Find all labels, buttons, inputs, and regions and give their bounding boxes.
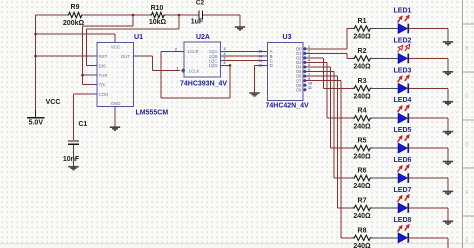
svg-text:240Ω: 240Ω	[353, 94, 371, 101]
U2A pin stubs	[179, 51, 226, 65]
svg-text:13: 13	[258, 59, 262, 63]
wire O1 to R2	[307, 53, 353, 58]
ground LED2	[443, 72, 453, 75]
resistor R7	[353, 205, 372, 210]
wire R8 to LED8	[372, 237, 398, 239]
U3 pin names A B C D	[270, 49, 273, 68]
svg-text:74HC42N_4V: 74HC42N_4V	[266, 103, 310, 110]
wire VCC to U1 VCC pin	[36, 34, 116, 38]
svg-text:LED1: LED1	[394, 8, 412, 15]
wire LED1 to ground	[409, 29, 448, 42]
wire O7 to R8	[307, 81, 353, 238]
wire 1QC to C	[226, 60, 263, 62]
svg-text:5: 5	[224, 57, 226, 61]
svg-text:OUT: OUT	[121, 54, 131, 59]
svg-text:11: 11	[308, 86, 312, 90]
U1 pin stubs	[91, 38, 139, 111]
svg-text:15: 15	[258, 50, 262, 54]
U1 pin names	[99, 45, 131, 106]
svg-text:1CLR: 1CLR	[188, 49, 199, 54]
svg-text:VCC: VCC	[111, 45, 120, 50]
U3 input pin numbers	[258, 50, 262, 68]
LED6	[398, 164, 410, 183]
svg-text:240Ω: 240Ω	[353, 64, 371, 71]
svg-text:R7: R7	[358, 197, 367, 204]
ground below C1	[68, 167, 78, 170]
LED2	[398, 44, 410, 63]
svg-text:D: D	[465, 142, 469, 148]
svg-text:1uF: 1uF	[191, 19, 204, 26]
wire LED6 to ground	[409, 178, 448, 191]
svg-text:U3: U3	[283, 34, 292, 41]
svg-text:R8: R8	[358, 227, 367, 234]
wire LED4 to ground	[409, 118, 448, 131]
wire 1QD to feedback	[226, 64, 230, 66]
svg-text:RST: RST	[99, 54, 108, 59]
svg-text:240Ω: 240Ω	[353, 34, 371, 41]
svg-text:O9: O9	[296, 87, 302, 92]
svg-text:LED2: LED2	[394, 37, 412, 44]
ground below U1	[110, 127, 120, 130]
wire LED3 to ground	[409, 88, 448, 101]
op-amp/timer U1 box	[97, 43, 134, 107]
wire OUT to U2A clock	[139, 56, 181, 71]
svg-text:1CLK: 1CLK	[189, 68, 200, 73]
wire R2 to LED2	[372, 57, 398, 59]
wire LED7 to ground	[409, 208, 448, 221]
svg-text:VCC: VCC	[46, 99, 61, 106]
LED7	[398, 194, 410, 213]
wire RST	[36, 55, 91, 57]
LED3	[398, 74, 410, 93]
resistor R6	[353, 175, 372, 180]
svg-text:R5: R5	[358, 138, 367, 145]
LED5	[398, 134, 410, 153]
svg-text:6: 6	[224, 61, 226, 65]
ground LED4	[443, 132, 453, 135]
svg-text:C2: C2	[196, 0, 205, 7]
wire O5 to R6	[307, 72, 353, 178]
resistor R4	[353, 116, 372, 121]
svg-text:12: 12	[258, 64, 262, 68]
LED8	[398, 224, 410, 243]
svg-text:R4: R4	[358, 108, 367, 115]
wire O4 to R5	[307, 67, 353, 148]
wire O0 to R1	[307, 29, 353, 49]
svg-text:LED4: LED4	[394, 97, 412, 104]
svg-text:C1: C1	[78, 121, 87, 128]
wire R1 to LED1	[372, 28, 398, 30]
svg-text:R2: R2	[358, 48, 367, 55]
wire R10/C2 junction to DIS	[87, 15, 180, 66]
junction VCC-RST	[34, 55, 37, 58]
ground LED3	[443, 102, 453, 105]
junction 1QD feedback	[229, 64, 232, 67]
ground LED5	[443, 162, 453, 165]
junction R9/R10	[132, 14, 135, 17]
wire R6 to LED6	[372, 177, 398, 179]
svg-text:DIS: DIS	[99, 63, 106, 68]
svg-text:LM555CM: LM555CM	[136, 110, 169, 117]
wire C1 to ground	[73, 145, 75, 166]
svg-text:LED8: LED8	[394, 217, 412, 224]
wire R9/R10 junction to THR and TRI	[83, 15, 134, 85]
wire VCC vertical rail	[35, 15, 37, 110]
svg-text:LED6: LED6	[394, 157, 412, 164]
svg-text:TRI: TRI	[99, 83, 106, 88]
resistor R10	[150, 12, 166, 17]
svg-text:2: 2	[175, 47, 177, 51]
resistor R2	[353, 56, 372, 61]
svg-text:4: 4	[224, 52, 226, 56]
svg-text:240Ω: 240Ω	[353, 183, 371, 190]
U3 output pin numbers	[308, 45, 312, 90]
svg-text:U1: U1	[134, 34, 143, 41]
U3 output pin names	[296, 46, 302, 92]
wire CON to C1	[74, 94, 91, 140]
svg-text:THR: THR	[99, 73, 108, 78]
ground LED7	[443, 221, 453, 224]
svg-text:240Ω: 240Ω	[353, 243, 371, 248]
wire LED8 to ground	[409, 238, 448, 248]
junction R10/C2	[178, 14, 181, 17]
wire 1QB to B	[226, 55, 263, 57]
svg-text:LED7: LED7	[394, 187, 412, 194]
svg-text:F: F	[465, 238, 468, 244]
wire C2 to ground	[203, 15, 240, 26]
svg-text:D: D	[270, 63, 273, 68]
svg-text:R9: R9	[71, 4, 80, 11]
svg-text:1: 1	[176, 67, 178, 71]
U2A clock bubble	[181, 68, 186, 72]
wire R7 to LED7	[372, 207, 398, 209]
resistor R8	[353, 235, 372, 240]
LED1	[398, 14, 410, 33]
svg-text:U2A: U2A	[196, 34, 210, 41]
svg-text:1QD: 1QD	[208, 63, 217, 68]
wire VCC rail top	[36, 14, 199, 16]
sheet border	[463, 0, 474, 248]
svg-text:3: 3	[224, 47, 226, 51]
junction VCC-U1	[34, 33, 37, 36]
U3 input stubs	[263, 51, 268, 65]
svg-text:R3: R3	[358, 78, 367, 85]
svg-text:LED5: LED5	[394, 127, 412, 134]
ground after C2	[235, 27, 245, 30]
resistor R3	[353, 86, 372, 91]
U2A pin numbers	[175, 47, 226, 70]
resistor R1	[353, 26, 372, 31]
svg-text:240Ω: 240Ω	[353, 123, 371, 130]
svg-text:R1: R1	[358, 18, 367, 25]
wire U1 GND to ground	[114, 111, 116, 126]
capacitor C2	[199, 11, 202, 20]
wire R5 to LED5	[372, 147, 398, 149]
wire LED5 to ground	[409, 148, 448, 161]
resistor R5	[353, 145, 372, 150]
wire LED2 to ground	[409, 58, 448, 71]
junction THR	[81, 74, 84, 77]
svg-text:74HC393N_4V: 74HC393N_4V	[180, 81, 227, 88]
svg-text:10: 10	[308, 81, 312, 85]
svg-text:CON: CON	[99, 92, 109, 97]
wire R3 to LED3	[372, 87, 398, 89]
capacitor C1	[68, 141, 79, 144]
ground LED6	[443, 191, 453, 194]
svg-text:240Ω: 240Ω	[353, 213, 371, 220]
wire D input to ground	[255, 65, 263, 92]
wire O6 to R7	[307, 76, 353, 208]
svg-text:5.0V: 5.0V	[29, 119, 44, 126]
U3 output bubbles	[303, 47, 307, 92]
svg-text:LED3: LED3	[394, 67, 412, 74]
counter U2A box	[184, 42, 220, 77]
svg-text:C: C	[465, 94, 469, 100]
svg-text:R6: R6	[358, 168, 367, 175]
svg-text:R10: R10	[151, 5, 164, 12]
wire R4 to LED4	[372, 117, 398, 119]
wire O2 to R3	[307, 58, 353, 88]
resistor R9	[67, 12, 83, 17]
decoder U3 box	[267, 43, 303, 101]
svg-text:10nF: 10nF	[63, 156, 80, 163]
svg-text:14: 14	[258, 54, 262, 58]
svg-text:GND: GND	[111, 101, 121, 106]
sheet bottom margin	[0, 244, 474, 248]
VCC power source 5.0V	[27, 110, 45, 118]
svg-text:200kΩ: 200kΩ	[63, 20, 85, 27]
wire feedback 1QD to 1CLR	[161, 51, 230, 98]
U2A pin names	[188, 49, 218, 73]
ground LED1	[443, 42, 453, 45]
svg-text:240Ω: 240Ω	[353, 153, 371, 160]
svg-text:10kΩ: 10kΩ	[149, 19, 167, 26]
ground at U3 D input	[249, 93, 259, 96]
wire O3 to R4	[307, 62, 353, 118]
wire 1QA to A	[226, 50, 263, 52]
LED4	[398, 104, 410, 123]
